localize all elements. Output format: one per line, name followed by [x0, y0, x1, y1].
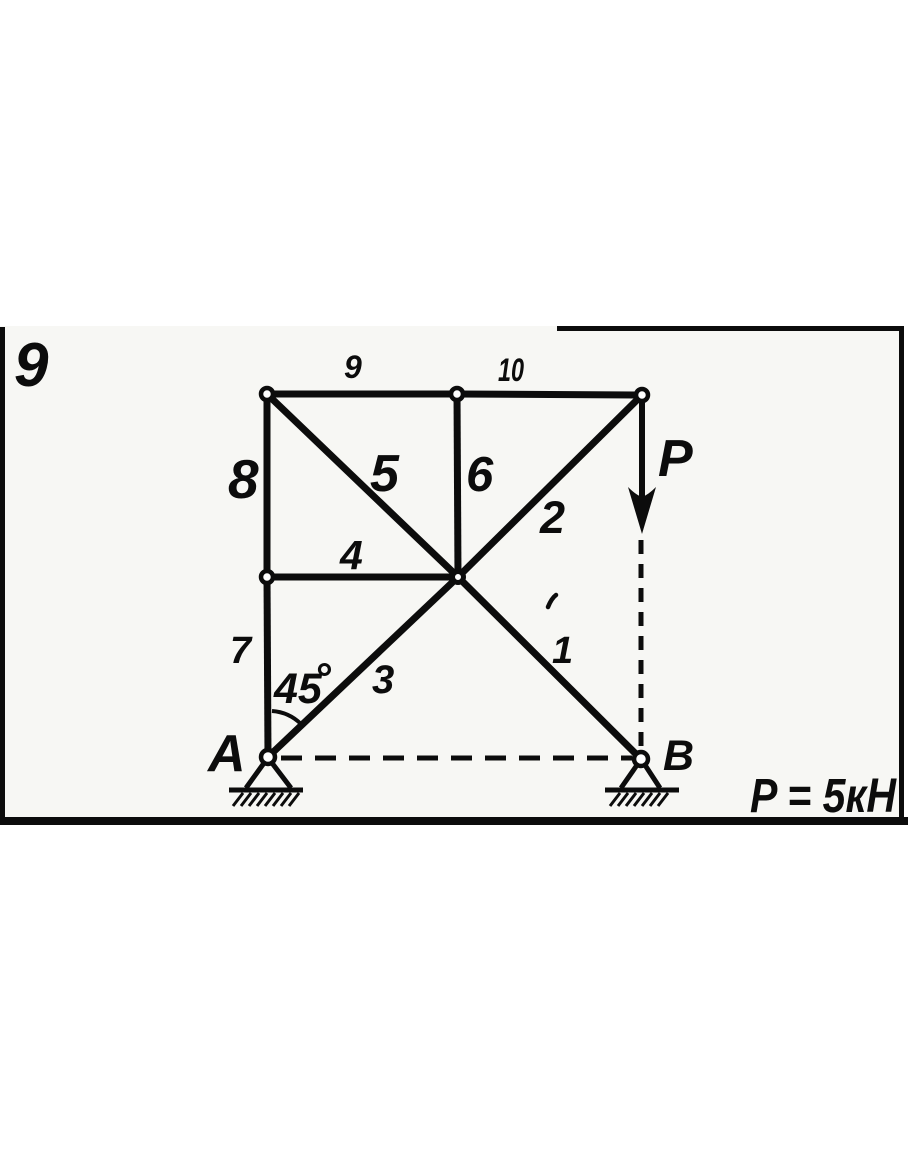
svg-text:6: 6: [466, 448, 494, 502]
node top-left: [261, 388, 273, 400]
frame bottom border: [0, 817, 908, 825]
svg-text:10: 10: [498, 352, 524, 388]
svg-text:1: 1: [552, 630, 573, 672]
svg-text:2: 2: [539, 492, 565, 543]
member 2 (diagonal center to TR): [458, 395, 642, 577]
member 4 (middle horizontal): [267, 574, 458, 581]
frame left border: [0, 327, 5, 822]
45 degree arc at A: [272, 711, 301, 724]
node top-middle: [451, 388, 463, 400]
support B triangle: [621, 765, 660, 788]
member 10 (top chord right): [457, 394, 642, 395]
svg-text:5: 5: [370, 445, 400, 503]
node middle-left: [261, 571, 273, 583]
svg-text:8: 8: [228, 448, 259, 510]
frame top border (right segment only): [557, 326, 904, 331]
frame right border: [899, 326, 904, 824]
support A base line: [229, 788, 303, 793]
svg-text:B: B: [663, 732, 694, 780]
member 1 (diagonal center to B): [458, 577, 641, 759]
member 6 (middle vertical): [457, 394, 458, 577]
dashed line A to B: [281, 756, 632, 761]
force P arrowhead: [628, 487, 656, 534]
label 1 tick mark: [548, 595, 556, 607]
svg-text:4: 4: [339, 532, 363, 578]
svg-text:9: 9: [344, 349, 362, 385]
svg-text:3: 3: [372, 658, 394, 702]
support A hatching: [233, 793, 299, 806]
force P solid shaft: [639, 398, 645, 500]
node B pin: [634, 752, 648, 766]
member 3 (diagonal A to center): [268, 577, 458, 757]
member 8 (left chord upper): [264, 394, 271, 577]
svg-text:7: 7: [230, 630, 253, 672]
support A triangle: [246, 763, 291, 788]
svg-text:P = 5кН: P = 5кН: [750, 770, 897, 823]
svg-text:9: 9: [14, 331, 49, 400]
node top-right: [636, 389, 648, 401]
member 9 (top chord left): [267, 391, 457, 398]
node A pin: [261, 750, 275, 764]
support B hatching: [610, 793, 668, 806]
member 7 (left chord lower): [267, 577, 268, 757]
svg-text:°: °: [314, 654, 332, 701]
svg-text:P: P: [658, 430, 693, 488]
support B base line: [605, 788, 679, 793]
force P dashed continuation to B: [639, 540, 644, 752]
figure panel background: [0, 326, 904, 824]
svg-text:A: A: [206, 725, 246, 783]
member 5 (diagonal TL to center): [267, 394, 458, 577]
node center: [453, 572, 464, 583]
